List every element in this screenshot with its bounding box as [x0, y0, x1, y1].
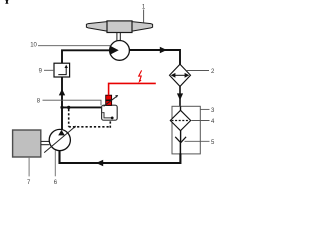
- pump 6: [49, 129, 70, 150]
- pilot dashed line horizontal: [69, 126, 111, 128]
- label 6 leader: [54, 151, 56, 177]
- pilot dashed line vertical from tap: [68, 109, 70, 127]
- red control wire: [109, 83, 156, 95]
- main vertical line valve9 to pump6: [61, 77, 63, 130]
- valve 9 internal path: [58, 68, 66, 75]
- label 4 leader: [192, 120, 210, 122]
- label 5 leader: [185, 140, 210, 142]
- label 9 leader: [44, 69, 54, 71]
- filter element 4 diamond: [170, 110, 190, 130]
- valve 9 internal arrow: [65, 65, 68, 68]
- filter element dashed: [172, 120, 190, 122]
- shaft engine to pump 6: [41, 141, 49, 144]
- label 3 leader: [200, 108, 209, 110]
- pump 6 flow triangle: [58, 130, 65, 136]
- label 8 leader: [43, 100, 102, 105]
- wire into filter element: [180, 106, 182, 111]
- suction line pump10 to valve9: [62, 50, 110, 63]
- flow arrow up: [59, 89, 65, 96]
- bypass check valve 5: [175, 137, 186, 143]
- figure number fragment top-left: [5, 0, 8, 4]
- flow arrow down: [177, 93, 183, 100]
- flow arrow left on rail: [96, 160, 103, 166]
- pilot dashed line to valve bottom: [109, 120, 111, 128]
- junction dot pilot tap: [67, 106, 70, 109]
- label 7 leader: [28, 157, 30, 176]
- proportional arrow through solenoid: [104, 96, 117, 106]
- junction dot on vertical line: [60, 106, 63, 109]
- cooler double arrow: [174, 74, 187, 76]
- label 1 leader: [143, 10, 145, 23]
- drive shaft propeller to pump 10: [117, 33, 120, 42]
- electric signal bolt: [139, 70, 142, 81]
- pump 6 variable arrow: [44, 127, 75, 153]
- solenoid stroke band: [105, 99, 112, 101]
- valve 9 body: [54, 63, 70, 77]
- pump 10: [110, 41, 130, 61]
- cooler 2 diamond: [170, 64, 191, 86]
- control valve internal dot: [111, 117, 114, 120]
- discharge line pump10 to cooler: [129, 50, 180, 65]
- solenoid (red): [106, 95, 112, 105]
- pump 10 flow triangle: [110, 46, 119, 55]
- flow arrow right on discharge line: [160, 47, 167, 53]
- control valve 8 body: [102, 105, 118, 120]
- control valve internal path: [102, 113, 112, 118]
- label 2 leader: [187, 70, 209, 72]
- wire cooler to filter housing: [179, 86, 181, 106]
- label 10 leader: [38, 45, 110, 47]
- engine 7: [13, 130, 41, 157]
- propeller 1: [86, 21, 152, 33]
- svg-text:10: 10: [30, 43, 37, 49]
- return line out of housing to rail: [179, 143, 181, 154]
- wire filter to check valve: [180, 131, 182, 142]
- branch line to control valve: [62, 106, 102, 108]
- filter housing 3: [172, 106, 200, 154]
